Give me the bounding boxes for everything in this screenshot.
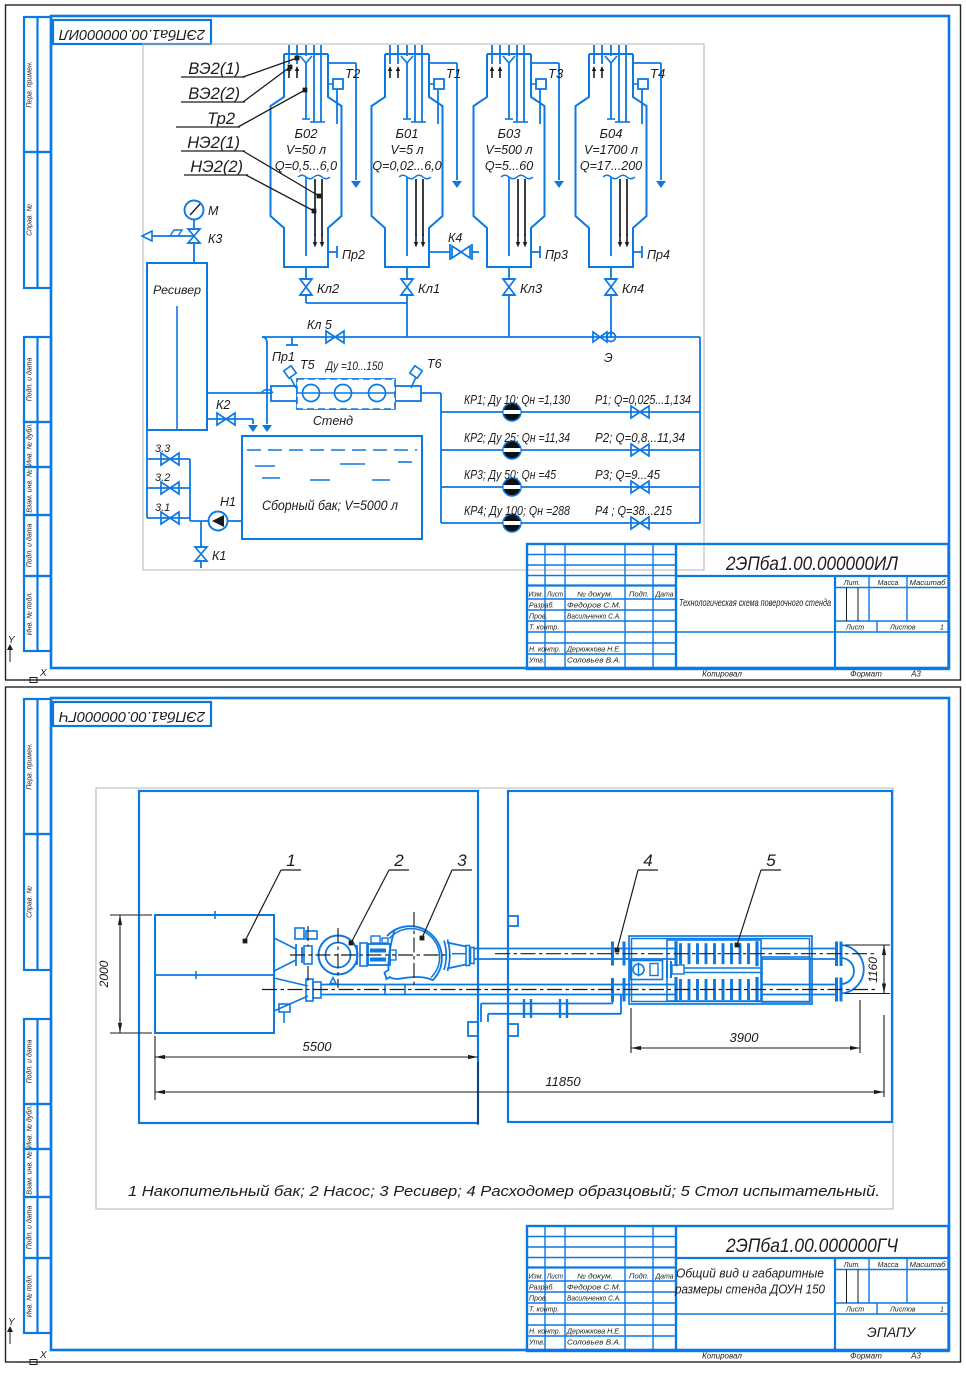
svg-text:Q=0,02...6,0: Q=0,02...6,0 bbox=[372, 159, 441, 173]
svg-text:Васильченко С.А.: Васильченко С.А. bbox=[567, 1296, 621, 1303]
svg-text:Лист: Лист bbox=[546, 1274, 563, 1281]
svg-text:Б03: Б03 bbox=[498, 126, 522, 141]
svg-text:Подп. и дата: Подп. и дата bbox=[26, 1039, 34, 1083]
svg-text:Тр2: Тр2 bbox=[207, 110, 235, 128]
svg-text:Пр3: Пр3 bbox=[545, 248, 568, 262]
svg-text:Р3; Q=9...45: Р3; Q=9...45 bbox=[595, 468, 660, 482]
svg-text:Формат: Формат bbox=[850, 670, 882, 679]
svg-text:Формат: Формат bbox=[850, 1352, 882, 1361]
svg-text:Масштаб: Масштаб bbox=[910, 1261, 947, 1269]
svg-text:Т1: Т1 bbox=[446, 66, 461, 81]
svg-text:№ докум.: № докум. bbox=[577, 1273, 613, 1281]
svg-text:Т4: Т4 bbox=[650, 66, 665, 81]
svg-text:Разраб.: Разраб. bbox=[529, 1284, 554, 1292]
svg-text:Пр2: Пр2 bbox=[342, 248, 365, 262]
svg-text:Пр1: Пр1 bbox=[272, 350, 295, 364]
svg-text:Кл 5: Кл 5 bbox=[307, 318, 332, 332]
svg-text:ВЭ2(1): ВЭ2(1) bbox=[188, 60, 240, 78]
svg-text:Масса: Масса bbox=[878, 1262, 899, 1269]
svg-text:V=5 л: V=5 л bbox=[390, 143, 423, 157]
svg-text:Утв.: Утв. bbox=[528, 658, 545, 665]
svg-text:Q=5...60: Q=5...60 bbox=[485, 159, 533, 173]
svg-text:размеры стенда ДОУН 150: размеры стенда ДОУН 150 bbox=[674, 1283, 825, 1297]
svg-text:ЭПАПУ: ЭПАПУ bbox=[867, 1324, 917, 1340]
svg-text:Взам. инв. №: Взам. инв. № bbox=[27, 469, 34, 513]
svg-text:Н. контр.: Н. контр. bbox=[529, 647, 561, 654]
svg-text:Р2; Q=0,8...11,34: Р2; Q=0,8...11,34 bbox=[595, 431, 685, 445]
svg-text:Пр4: Пр4 bbox=[647, 248, 670, 262]
svg-text:Подп.: Подп. bbox=[629, 1273, 649, 1281]
svg-text:V=1700 л: V=1700 л bbox=[584, 143, 638, 157]
svg-text:Т5: Т5 bbox=[300, 358, 315, 372]
svg-text:Федоров С.М.: Федоров С.М. bbox=[567, 1284, 621, 1292]
svg-text:Подп. и дата: Подп. и дата bbox=[26, 357, 34, 401]
svg-text:Стенд: Стенд bbox=[313, 414, 353, 428]
svg-text:Инв. № подл.: Инв. № подл. bbox=[26, 1274, 34, 1317]
svg-text:Федоров С.М.: Федоров С.М. bbox=[567, 602, 621, 610]
svg-text:Н. контр.: Н. контр. bbox=[529, 1329, 561, 1336]
svg-text:Р1; Q=0,025...1,134: Р1; Q=0,025...1,134 bbox=[595, 393, 691, 407]
svg-text:КР2; Ду 25; Qн =11,34: КР2; Ду 25; Qн =11,34 bbox=[464, 431, 570, 445]
svg-text:КР4; Ду 100; Qн =288: КР4; Ду 100; Qн =288 bbox=[464, 504, 570, 518]
svg-text:Б04: Б04 bbox=[600, 126, 623, 141]
svg-text:4: 4 bbox=[643, 851, 652, 870]
svg-text:Васильченко С.А.: Васильченко С.А. bbox=[567, 614, 621, 621]
svg-text:Перв. примен.: Перв. примен. bbox=[27, 743, 34, 790]
svg-text:Q=17...200: Q=17...200 bbox=[580, 159, 642, 173]
svg-text:2000: 2000 bbox=[97, 960, 111, 988]
svg-text:К3: К3 bbox=[208, 232, 222, 246]
svg-text:Подп.: Подп. bbox=[629, 591, 649, 599]
svg-text:Изм.: Изм. bbox=[529, 592, 544, 599]
svg-text:Лит.: Лит. bbox=[843, 580, 860, 587]
svg-text:Э: Э bbox=[604, 351, 613, 365]
svg-text:Кл3: Кл3 bbox=[520, 281, 543, 296]
svg-text:Т. контр.: Т. контр. bbox=[529, 1307, 559, 1314]
svg-text:Инв. № дубл.: Инв. № дубл. bbox=[26, 1105, 34, 1148]
svg-text:Q=0,5...6,0: Q=0,5...6,0 bbox=[275, 159, 337, 173]
svg-text:3900: 3900 bbox=[730, 1030, 760, 1045]
svg-text:Технологическая схема поверочн: Технологическая схема поверочного стенда bbox=[679, 597, 831, 609]
svg-text:Ресивер: Ресивер bbox=[153, 285, 202, 297]
svg-text:Общий вид и габаритные: Общий вид и габаритные bbox=[676, 1267, 824, 1281]
svg-text:Лист: Лист bbox=[546, 592, 563, 599]
svg-text:2ЭПба1.00.000000ГЧ: 2ЭПба1.00.000000ГЧ bbox=[725, 1236, 898, 1257]
svg-text:Т3: Т3 bbox=[548, 66, 564, 81]
svg-text:Листов: Листов bbox=[889, 1307, 916, 1314]
svg-text:2ЭПба1.00.000000ГЧ: 2ЭПба1.00.000000ГЧ bbox=[59, 708, 206, 724]
svg-text:Пров.: Пров. bbox=[529, 614, 548, 621]
svg-text:1: 1 bbox=[940, 1307, 944, 1314]
svg-text:НЭ2(2): НЭ2(2) bbox=[190, 158, 243, 176]
svg-text:X: X bbox=[39, 668, 47, 679]
svg-text:Масса: Масса bbox=[878, 580, 899, 587]
svg-text:Т6: Т6 bbox=[427, 357, 442, 371]
svg-text:Разраб.: Разраб. bbox=[529, 602, 554, 610]
svg-text:2: 2 bbox=[393, 851, 404, 870]
svg-text:5: 5 bbox=[766, 851, 776, 870]
svg-text:Справ. №: Справ. № bbox=[27, 204, 34, 236]
svg-text:X: X bbox=[39, 1350, 47, 1361]
svg-text:V=50 л: V=50 л bbox=[286, 143, 326, 157]
svg-text:Инв. № дубл.: Инв. № дубл. bbox=[26, 423, 34, 466]
svg-text:Ду =10...150: Ду =10...150 bbox=[324, 359, 383, 373]
svg-text:1: 1 bbox=[940, 625, 944, 632]
svg-text:Дата: Дата bbox=[655, 592, 674, 599]
svg-text:3.3: 3.3 bbox=[155, 443, 171, 455]
svg-text:3.2: 3.2 bbox=[155, 472, 170, 484]
svg-text:Б02: Б02 bbox=[295, 126, 319, 141]
svg-text:3.1: 3.1 bbox=[155, 502, 170, 514]
svg-text:К1: К1 bbox=[212, 549, 226, 563]
svg-text:КР1; Ду 10; Qн =1,130: КР1; Ду 10; Qн =1,130 bbox=[464, 393, 570, 407]
svg-text:Н1: Н1 bbox=[220, 495, 236, 509]
svg-text:Лит.: Лит. bbox=[843, 1262, 860, 1269]
svg-text:Подп. и дата: Подп. и дата bbox=[26, 1205, 34, 1249]
svg-text:Б01: Б01 bbox=[396, 126, 419, 141]
svg-text:Копировал: Копировал bbox=[702, 1352, 742, 1361]
svg-text:НЭ2(1): НЭ2(1) bbox=[187, 134, 240, 152]
svg-text:Сборный бак; V=5000 л: Сборный бак; V=5000 л bbox=[262, 498, 398, 513]
svg-text:11850: 11850 bbox=[545, 1074, 581, 1089]
svg-text:Изм.: Изм. bbox=[529, 1274, 544, 1281]
svg-text:М: М bbox=[208, 204, 219, 218]
svg-text:Инв. № подл.: Инв. № подл. bbox=[26, 592, 34, 635]
svg-text:КР3; Ду 50; Qн =45: КР3; Ду 50; Qн =45 bbox=[464, 468, 556, 482]
svg-text:Пров.: Пров. bbox=[529, 1296, 548, 1303]
svg-text:Подп. и дата: Подп. и дата bbox=[26, 523, 34, 567]
svg-text:Масштаб: Масштаб bbox=[910, 579, 947, 587]
svg-text:5500: 5500 bbox=[303, 1039, 333, 1054]
svg-text:1160: 1160 bbox=[866, 957, 880, 983]
svg-text:Копировал: Копировал bbox=[702, 670, 742, 679]
svg-text:Листов: Листов bbox=[889, 625, 916, 632]
svg-text:1 Накопительный бак; 2 Насо: 1 Накопительный бак; 2 Насос; 3 Ресивер;… bbox=[128, 1183, 880, 1200]
svg-text:Кл4: Кл4 bbox=[622, 281, 644, 296]
svg-text:Взам. инв. №: Взам. инв. № bbox=[27, 1151, 34, 1195]
svg-text:1: 1 bbox=[286, 851, 295, 870]
svg-text:Лист: Лист bbox=[845, 625, 864, 632]
svg-text:2ЭПба1.00.000000ИЛ: 2ЭПба1.00.000000ИЛ bbox=[59, 26, 206, 42]
svg-text:К4: К4 bbox=[448, 231, 462, 245]
svg-text:Кл2: Кл2 bbox=[317, 281, 340, 296]
svg-text:Кл1: Кл1 bbox=[418, 281, 440, 296]
svg-text:Т. контр.: Т. контр. bbox=[529, 625, 559, 632]
svg-text:Соловьев В.А.: Соловьев В.А. bbox=[567, 1340, 621, 1347]
svg-text:Т2: Т2 bbox=[345, 66, 361, 81]
svg-text:Дата: Дата bbox=[655, 1274, 674, 1281]
svg-text:Р4 ; Q=38...215: Р4 ; Q=38...215 bbox=[595, 504, 672, 518]
svg-text:Перв. примен.: Перв. примен. bbox=[27, 61, 34, 108]
svg-text:2ЭПба1.00.000000ИЛ: 2ЭПба1.00.000000ИЛ bbox=[725, 554, 899, 575]
svg-text:V=500 л: V=500 л bbox=[485, 143, 532, 157]
svg-text:Утв.: Утв. bbox=[528, 1340, 545, 1347]
svg-text:ВЭ2(2): ВЭ2(2) bbox=[188, 85, 240, 103]
svg-text:Дерюжкова Н.Е.: Дерюжкова Н.Е. bbox=[566, 1329, 621, 1336]
svg-text:А3: А3 bbox=[910, 670, 921, 679]
svg-text:Лист: Лист bbox=[845, 1307, 864, 1314]
svg-text:3: 3 bbox=[457, 851, 467, 870]
svg-text:А3: А3 bbox=[910, 1352, 921, 1361]
svg-text:Дерюжкова Н.Е.: Дерюжкова Н.Е. bbox=[566, 647, 621, 654]
svg-text:К2: К2 bbox=[216, 398, 230, 412]
svg-text:Соловьев В.А.: Соловьев В.А. bbox=[567, 658, 621, 665]
svg-text:Справ. №: Справ. № bbox=[27, 886, 34, 918]
svg-text:№ докум.: № докум. bbox=[577, 591, 613, 599]
